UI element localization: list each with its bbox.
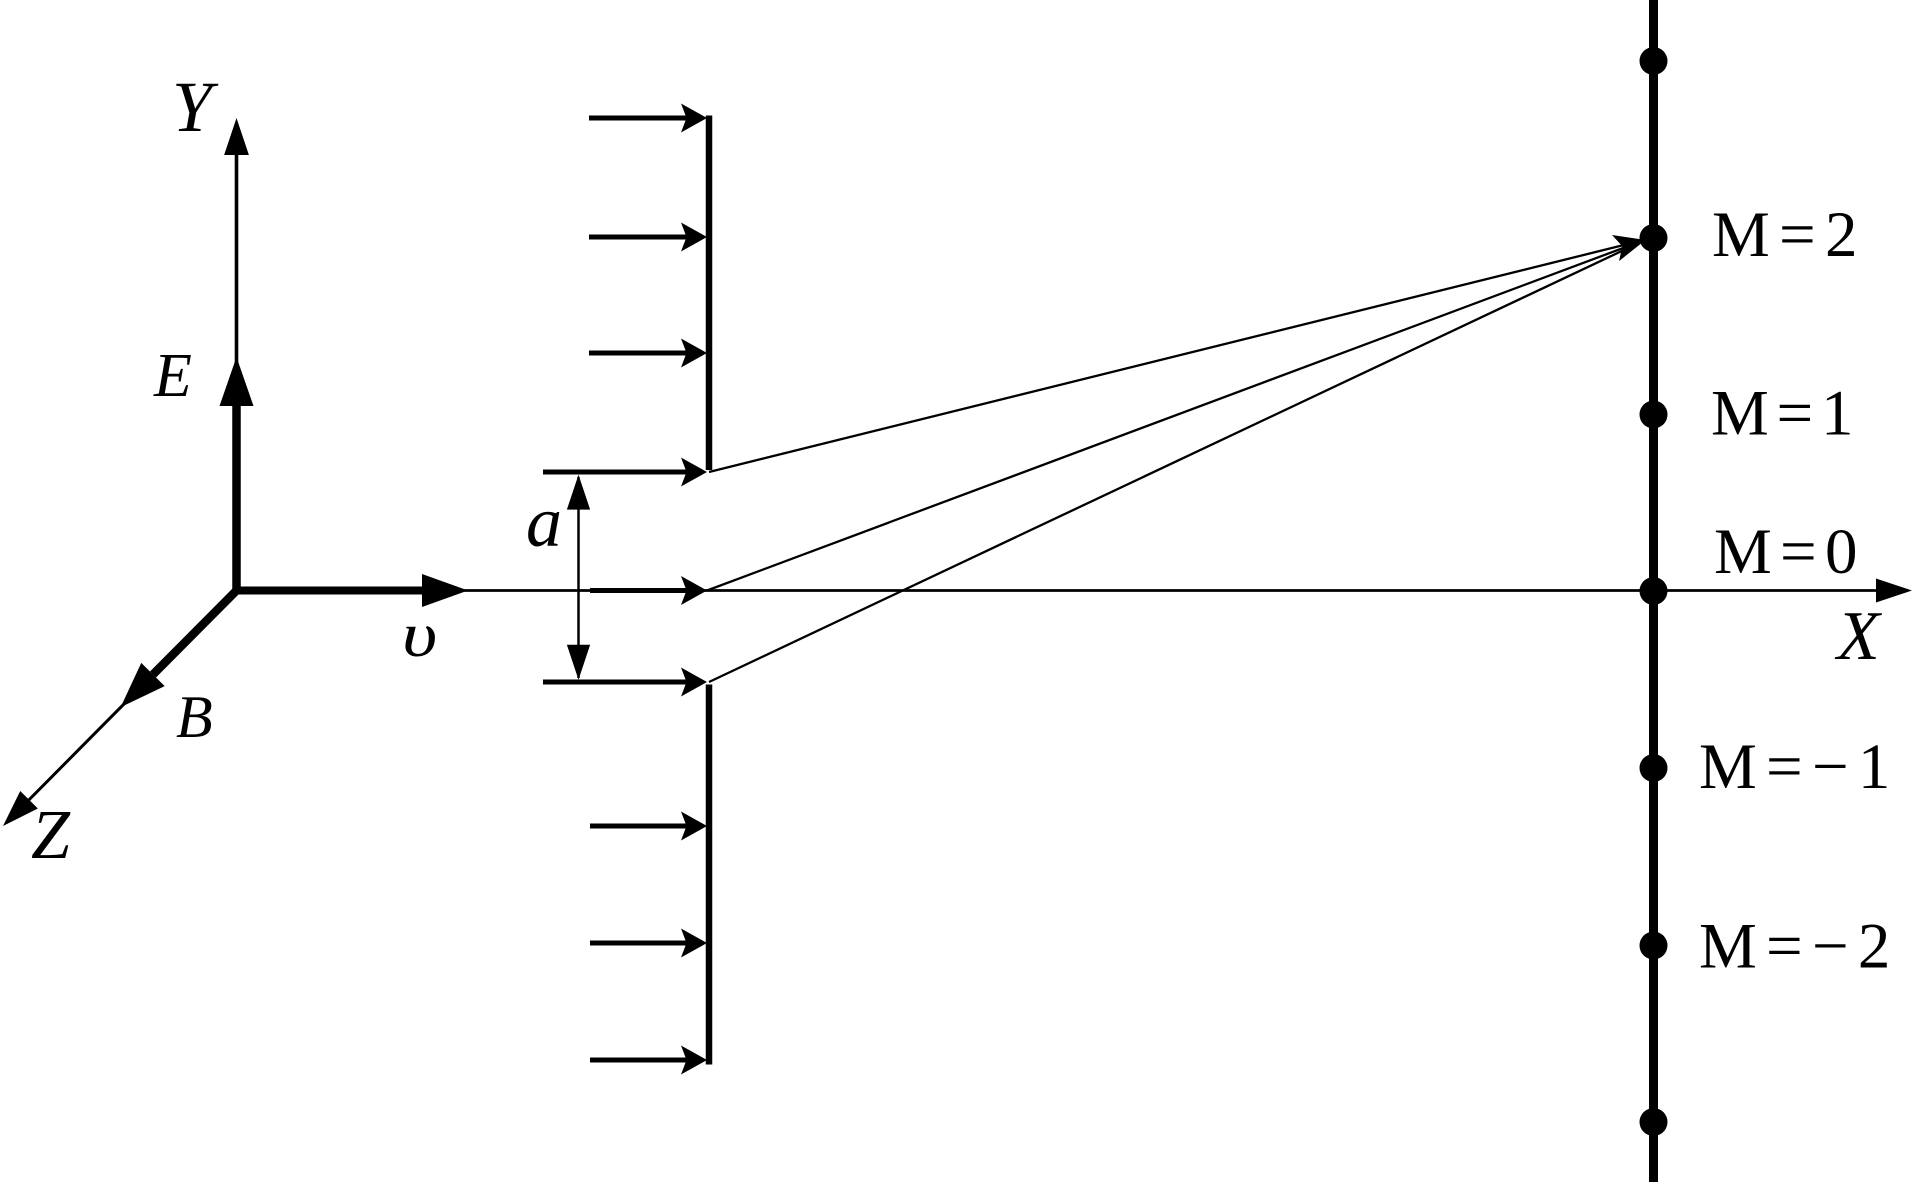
incident wave arrow 9 — [590, 1046, 707, 1075]
node Y-axis arrowhead — [224, 118, 249, 155]
node X-axis arrowhead — [1876, 579, 1912, 603]
svg-text:E: E — [153, 342, 192, 410]
svg-text:υ: υ — [402, 600, 437, 671]
screen (detection plane) — [1649, 0, 1658, 1182]
wire: B vector thick shaft — [153, 591, 237, 675]
barrier lower segment — [706, 685, 713, 1065]
incident wave arrow 5 (center, on axis) — [590, 576, 707, 605]
svg-text:M = 2: M = 2 — [1712, 199, 1857, 271]
node dot M=-2 — [1640, 932, 1668, 960]
incident wave arrow 8 — [590, 929, 707, 958]
incident wave arrow 2 — [589, 223, 707, 252]
incident wave arrow 7 — [590, 812, 707, 841]
svg-text:M = − 2: M = − 2 — [1699, 911, 1890, 983]
node v arrowhead — [422, 574, 468, 607]
wire: v vector thick shaft — [237, 587, 425, 595]
svg-text:Z: Z — [31, 797, 71, 874]
barrier upper segment — [706, 116, 713, 471]
node E arrowhead — [220, 357, 254, 406]
node ray arrowhead at M=2 — [1612, 227, 1649, 261]
svg-text:M = − 1: M = − 1 — [1699, 731, 1890, 803]
incident wave arrow 6 (bottom slit edge) — [543, 668, 707, 697]
dimension a bottom arrowhead — [567, 645, 590, 680]
incident wave arrow 4 (top slit edge) — [543, 458, 707, 487]
dimension a top arrowhead — [567, 475, 590, 510]
svg-text:M = 1: M = 1 — [1711, 378, 1853, 450]
wire: Y axis thin line — [235, 150, 239, 591]
svg-text:a: a — [526, 482, 562, 562]
svg-text:M = 0: M = 0 — [1714, 516, 1857, 588]
node dot M=1 — [1640, 401, 1668, 429]
incident wave arrow 3 — [589, 339, 707, 368]
ray from slit center to M=2 — [707, 242, 1640, 591]
svg-text:Y: Y — [172, 67, 219, 147]
ray from bottom slit edge to M=2 — [709, 242, 1640, 682]
node Z-axis arrowhead — [0, 791, 38, 835]
node dot M=2 — [1640, 224, 1668, 252]
svg-text:B: B — [176, 684, 213, 750]
node B arrowhead — [109, 663, 165, 719]
node dot M=0 (on X axis) — [1640, 577, 1668, 605]
wire: Z axis thin line — [6, 591, 237, 824]
ray from top slit edge to M=2 — [709, 241, 1640, 472]
svg-text:X: X — [1834, 598, 1883, 675]
node dot bottom (unlabeled) — [1640, 1108, 1668, 1136]
incident wave arrow 1 — [589, 104, 707, 133]
wire: E vector thick shaft — [232, 404, 241, 591]
dimension a arrow line — [577, 477, 580, 678]
node dot M=-1 — [1640, 754, 1668, 782]
node dot top (unlabeled) — [1640, 47, 1668, 75]
wire: X axis thin line — [237, 589, 1879, 592]
